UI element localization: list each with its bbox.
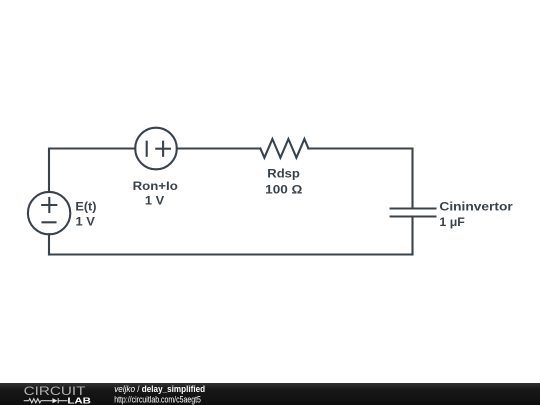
capacitor Cininvertor	[391, 209, 436, 217]
wire bottom plate to bottom-right corner	[411, 217, 413, 255]
svg-text:100 Ω: 100 Ω	[265, 183, 302, 197]
wire top-left segment	[49, 149, 135, 192]
voltage source V2 Ron+Io	[135, 128, 177, 170]
wire bottom-left vertical	[48, 234, 50, 254]
voltage source V1 E(t)	[28, 192, 70, 234]
svg-text:E(t): E(t)	[75, 199, 96, 213]
resistor Rdsp	[260, 139, 308, 158]
wire bottom	[49, 253, 413, 255]
svg-text:1 V: 1 V	[76, 215, 96, 229]
CircuitLab logo schematic squiggle with resistor and diode	[24, 398, 68, 403]
svg-text:LAB: LAB	[67, 396, 91, 405]
svg-text:veljko / delay_simplified: veljko / delay_simplified	[114, 384, 205, 394]
svg-text:1 V: 1 V	[145, 194, 165, 208]
wire between source Ron+Io and resistor Rdsp	[177, 147, 261, 149]
svg-text:http://circuitlab.com/c5aegt5: http://circuitlab.com/c5aegt5	[114, 394, 201, 404]
svg-text:Cininvertor: Cininvertor	[439, 199, 513, 213]
wire resistor to top-right corner	[308, 149, 412, 209]
svg-text:1 μF: 1 μF	[439, 215, 465, 229]
svg-text:Rdsp: Rdsp	[267, 167, 300, 181]
svg-text:Ron+Io: Ron+Io	[133, 179, 179, 193]
